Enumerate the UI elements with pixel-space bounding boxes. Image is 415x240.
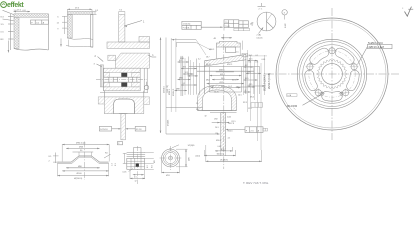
svg-text:Ø96.5: Ø96.5 (169, 88, 171, 95)
svg-text:Ø144.6: Ø144.6 (167, 120, 169, 126)
svg-text:Ø45.2: Ø45.2 (220, 74, 225, 76)
svg-text:2ØF16.2 E-8: 2ØF16.2 E-8 (369, 45, 385, 49)
svg-text:0.05: 0.05 (262, 59, 266, 61)
svg-text:F 0.05 A: F 0.05 A (183, 27, 190, 30)
svg-text:8.2: 8.2 (183, 83, 186, 85)
svg-text:12.5: 12.5 (248, 108, 252, 110)
svg-text:Ø92.5 (Z): Ø92.5 (Z) (76, 143, 86, 145)
svg-text:1.5: 1.5 (236, 52, 239, 54)
svg-text:14.5: 14.5 (238, 95, 242, 97)
svg-text:Ø(200.9): Ø(200.9) (74, 178, 83, 180)
svg-text:0.05: 0.05 (218, 146, 222, 148)
svg-text:12: 12 (135, 181, 137, 183)
svg-text:Ø72: Ø72 (183, 67, 187, 69)
svg-text:10.5: 10.5 (249, 59, 253, 61)
svg-text:Ø160: Ø160 (77, 173, 83, 175)
svg-text:M14 RIM: M14 RIM (287, 105, 297, 108)
svg-text:2 (B): 2 (B) (257, 35, 262, 37)
svg-text:Ø32: Ø32 (214, 119, 217, 121)
svg-text:9.8: 9.8 (151, 165, 153, 168)
svg-text:2 0.1: 2 0.1 (225, 22, 229, 24)
svg-text:F1 18: F1 18 (136, 129, 142, 131)
svg-text:Ø88: Ø88 (176, 89, 180, 91)
svg-text:6.4: 6.4 (249, 62, 252, 64)
svg-text:3.2: 3.2 (198, 59, 201, 61)
svg-text:10.5: 10.5 (249, 55, 253, 57)
svg-text:1.3: 1.3 (112, 163, 114, 166)
svg-text:30.5: 30.5 (245, 78, 249, 80)
svg-text:26.3: 26.3 (215, 127, 219, 129)
svg-text:6: 6 (245, 90, 246, 92)
svg-text:Ø233.5 (0.08): Ø233.5 (0.08) (267, 73, 271, 89)
svg-text:12: 12 (196, 103, 198, 105)
svg-text:6.2: 6.2 (147, 165, 149, 168)
svg-text:R3: R3 (216, 133, 218, 135)
svg-text:Ø48.5: Ø48.5 (219, 70, 225, 72)
svg-text:T. REV 7A6 T. RNL: T. REV 7A6 T. RNL (243, 181, 269, 185)
svg-text:0.3: 0.3 (115, 163, 117, 166)
svg-text:Ø60.5: Ø60.5 (209, 49, 214, 51)
svg-text:2.6: 2.6 (256, 62, 259, 64)
svg-text:14.25: 14.25 (214, 92, 219, 94)
svg-text:Ø24.6: Ø24.6 (228, 131, 233, 133)
svg-text:32: 32 (205, 116, 207, 118)
svg-text:9.5: 9.5 (119, 10, 122, 12)
svg-text:(240): (240) (196, 155, 201, 157)
svg-text:Ø203.9 (204.1): Ø203.9 (204.1) (262, 73, 266, 91)
svg-text:Ø25: Ø25 (249, 84, 253, 86)
svg-text:1 (2): 1 (2) (252, 22, 254, 26)
svg-text:DCN 18: DCN 18 (100, 129, 108, 131)
svg-text:Ø40: Ø40 (247, 72, 251, 74)
svg-text:30.25: 30.25 (206, 64, 211, 66)
svg-text:Ø52.5: Ø52.5 (227, 64, 232, 66)
svg-text:0.4x45: 0.4x45 (257, 38, 264, 40)
svg-text:Ø5.5: Ø5.5 (250, 97, 254, 99)
svg-text:8.2: 8.2 (221, 149, 224, 151)
svg-text:2x45: 2x45 (227, 117, 231, 119)
svg-text:Ø104.5: Ø104.5 (173, 88, 175, 96)
svg-text:Ø30.2: Ø30.2 (216, 140, 221, 142)
svg-text:1/2(N)D: 1/2(N)D (188, 145, 196, 147)
svg-text:4.5: 4.5 (134, 177, 137, 179)
svg-text:Ø52.1: Ø52.1 (220, 82, 225, 84)
svg-text:4.5: 4.5 (228, 138, 231, 140)
svg-text:4.2: 4.2 (245, 65, 248, 67)
svg-text:0.8/R: 0.8/R (285, 23, 287, 28)
svg-text:28.7: 28.7 (206, 57, 210, 59)
svg-text:Ø27.8: Ø27.8 (229, 123, 234, 125)
svg-text:R2.5: R2.5 (243, 102, 247, 104)
svg-text:R1.5: R1.5 (232, 121, 236, 123)
svg-text:R4: R4 (105, 153, 107, 155)
svg-text:effekt: effekt (7, 2, 24, 9)
svg-text:36.5: 36.5 (221, 78, 225, 80)
svg-text:Ø250.5: Ø250.5 (164, 85, 166, 93)
svg-text:R8: R8 (196, 109, 198, 111)
svg-text:0.1: 0.1 (256, 55, 259, 57)
svg-text:Ø66: Ø66 (179, 78, 183, 80)
svg-text:Ø8: Ø8 (154, 160, 156, 163)
svg-text:6.4: 6.4 (179, 60, 182, 62)
svg-text:ØL(88.9): ØL(88.9) (220, 160, 228, 162)
svg-text:7 0.05: 7 0.05 (225, 26, 230, 28)
